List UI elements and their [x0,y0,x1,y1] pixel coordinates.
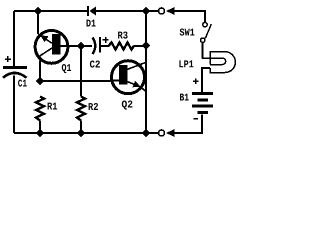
resistor R1 [36,97,44,121]
label R2 [89,103,98,110]
transistor Q2 base bar [119,65,128,85]
capacitor C1 plus sign [5,56,11,62]
wire top rail left segment [14,10,87,12]
node terminal open circle top [159,8,165,14]
transistor Q1 base bar [52,34,61,55]
wire switch to lamp slot lead [201,43,203,59]
wire R1 bottom [39,121,41,134]
node junction dot bottom rail / R2 [77,129,85,137]
label SW1 [180,29,195,36]
battery B1 bar 3 long [192,105,213,108]
label R3 [118,32,128,39]
node junction dot top rail / Q1 emitter [34,7,42,15]
wire top rail mid segment (diode to terminal) [96,10,158,12]
wire base line Q1 collector junction to Q2 base [40,80,111,82]
battery B1 bar 2 short [198,98,209,101]
wire bottom rail right segment (arrow to battery) [175,115,203,134]
diode D1 triangle [89,6,96,15]
node junction dot R3 / right vertical [142,41,150,49]
wire Q1 emitter from top rail [37,11,39,34]
capacitor C2 plus sign [103,37,109,43]
capacitor C2 straight plate [99,37,101,53]
connector arrow bottom [166,129,175,137]
battery B1 plus sign [193,78,199,84]
transistor Q2 collector lead [127,62,146,69]
wire C2 to R3 [101,45,109,47]
label C1 [18,80,27,87]
connector arrow top [166,7,175,15]
node junction dot bottom rail / Q2 emitter [142,129,150,137]
capacitor C1 top plate [3,66,27,69]
wire left rail lower [13,76,15,134]
node junction dot top rail / right vertical [142,7,150,15]
wire left rail [13,11,15,66]
node junction dot Q1 base / C2 / R2 [77,42,85,50]
switch SW1 blade [205,24,211,38]
wire top rail right segment (arrow to switch) [175,11,206,22]
label LP1 [179,60,193,67]
wire R3 to junction [134,45,147,47]
wire Q1 base to C2 [68,45,92,47]
label C2 [90,61,100,68]
transistor Q1 collector lead [38,48,52,57]
transistor Q2 base lead [111,80,119,82]
transistor Q1 emitter arrow [40,35,48,42]
capacitor C2 curved plate [93,38,96,55]
wire battery plus to lamp shell [202,68,210,92]
diode D1 cathode bar [87,6,89,16]
label R1 [48,103,58,110]
wire right vertical rail (top rail to bottom rail, past Q2) [145,11,147,133]
lamp LP1 filament slot [202,58,226,65]
transistor Q2 circle [112,61,145,94]
label D1 [87,20,96,27]
wire bottom rail [14,132,158,134]
battery B1 minus sign [194,118,199,120]
resistor R2 [77,97,85,121]
wire R2 bottom [80,121,82,134]
wire Q1 collector to R1 junction [39,61,41,82]
label Q1 [62,64,71,73]
label B1 [180,94,189,101]
resistor R3 [109,42,134,49]
node terminal open circle bottom [159,130,165,136]
transistor Q1 base lead [60,45,69,47]
transistor Q1 circle [35,31,68,64]
battery B1 bar 4 short [198,111,209,114]
switch SW1 bottom contact [201,38,205,42]
node junction dot Q1 collector / R1 [36,77,44,85]
transistor Q2 emitter arrow [133,81,141,87]
battery B1 bar 1 long [192,92,213,95]
lamp LP1 envelope [210,52,235,73]
node junction dot bottom rail / R1 [36,129,44,137]
transistor Q1 emitter lead [38,34,52,43]
label Q2 [122,101,133,110]
wire R2 top feed from C2 junction [80,46,82,97]
switch SW1 top contact [203,22,207,26]
capacitor C1 curved plate [3,73,27,78]
transistor Q2 emitter lead [127,82,146,92]
